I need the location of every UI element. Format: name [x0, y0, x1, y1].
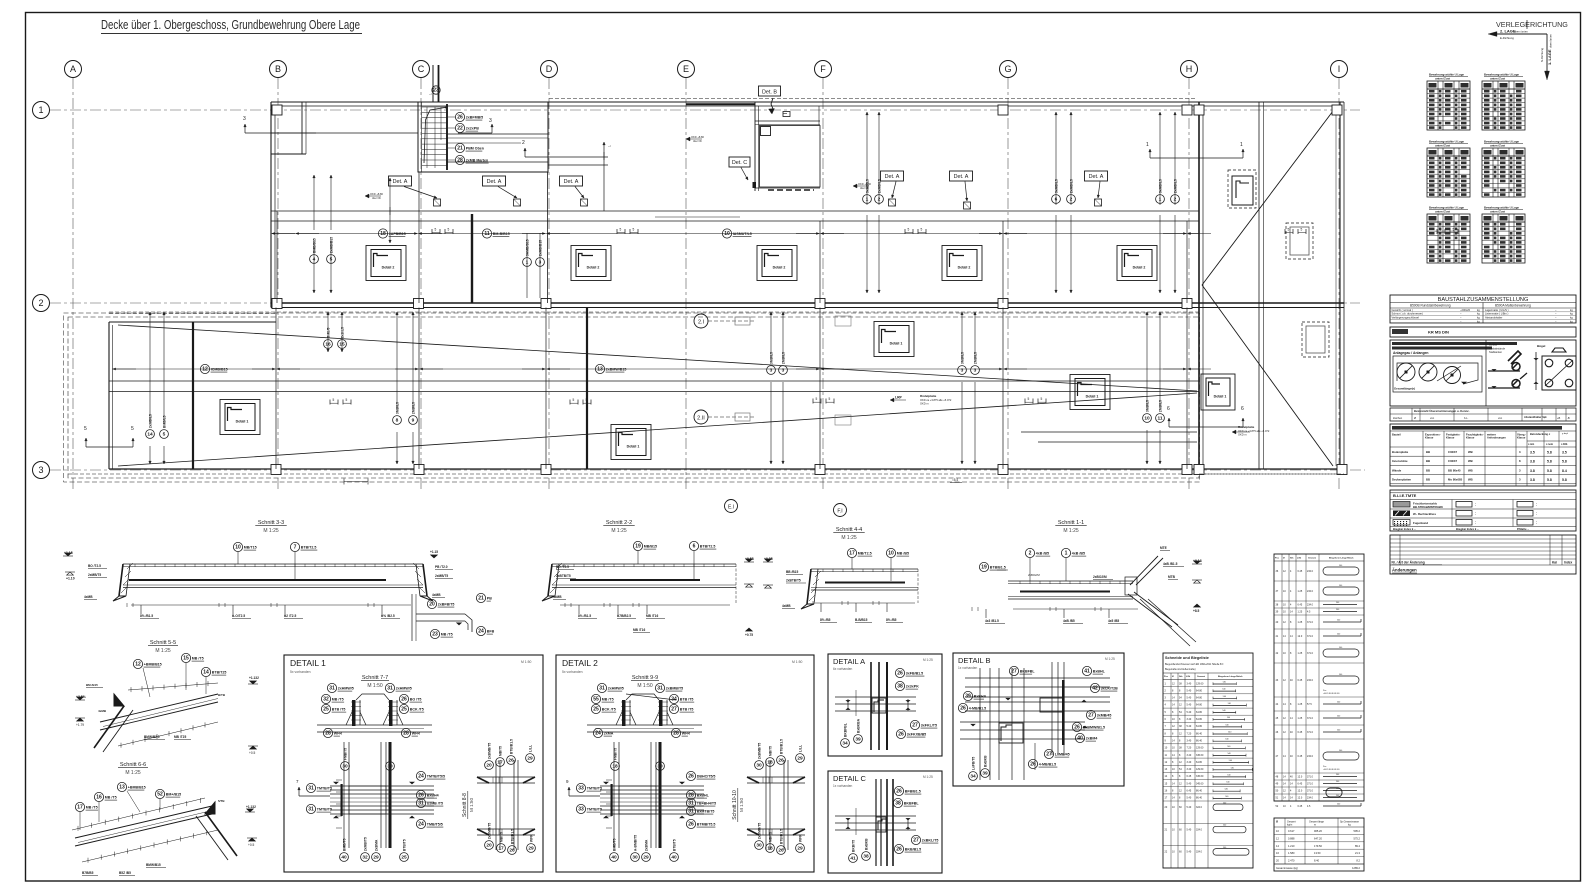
svg-text:Stabkanten: Stabkanten — [1489, 350, 1503, 354]
svg-text:BM+/B15: BM+/B15 — [166, 793, 181, 797]
svg-text:DETAIL B: DETAIL B — [958, 656, 991, 665]
lower vertical dim lines — [149, 312, 151, 422]
svg-text:+4070 8.8.8.8.8.8.8.: +4070 8.8.8.8.8.8.8. — [1323, 769, 1340, 771]
grid bubble H — [1181, 61, 1198, 78]
small dashed squares lower — [835, 316, 851, 326]
svg-text:5.8: 5.8 — [1547, 469, 1552, 473]
svg-text:M 1:25: M 1:25 — [263, 528, 279, 534]
svg-text:Klasse: Klasse — [1517, 436, 1526, 440]
svg-text:18: 18 — [767, 846, 773, 852]
svg-text:TMTB/T5: TMTB/T5 — [317, 787, 332, 791]
svg-text:Biegerollendurchmesser nach EN: Biegerollendurchmesser nach EN 1992+2011… — [1165, 663, 1224, 666]
svg-text:540: 540 — [1339, 750, 1342, 752]
svg-text:8% /B1.5: 8% /B1.5 — [578, 614, 591, 618]
svg-text:Änderungen: Änderungen — [1392, 568, 1417, 573]
svg-text:31: 31 — [688, 809, 694, 815]
svg-text:3.40: 3.40 — [1187, 682, 1192, 685]
svg-text:FMB/T5: FMB/T5 — [658, 748, 662, 760]
svg-text:BMB/5: BMB/5 — [326, 327, 330, 338]
svg-text:2xBMA: 2xBMA — [644, 839, 648, 851]
hook icons — [1488, 370, 1520, 372]
svg-text:1: 1 — [866, 197, 869, 203]
svg-text:5.8: 5.8 — [1562, 460, 1567, 464]
svg-text:540: 540 — [1337, 804, 1340, 806]
svg-text:BKBFBL: BKBFBL — [843, 723, 847, 737]
grid line 3 — [50, 469, 1365, 471]
svg-text:32: 32 — [362, 855, 368, 861]
svg-text:540: 540 — [1339, 585, 1342, 587]
svg-text:234.0: 234.0 — [1307, 755, 1314, 758]
svg-text:Pos: Pos — [1323, 690, 1326, 692]
svg-text:26: 26 — [401, 697, 407, 703]
grid line A — [72, 78, 74, 492]
svg-text:Rödelplatte: Rödelplatte — [920, 394, 937, 398]
svg-text:324.0: 324.0 — [1196, 828, 1203, 831]
svg-text:39: 39 — [855, 737, 861, 743]
svg-text:unten /Zust: unten /Zust — [1490, 76, 1505, 80]
svg-text:5: 5 — [1041, 397, 1043, 401]
svg-text:BTB/B1.5: BTB/B1.5 — [990, 566, 1006, 570]
svg-text:MB /T16: MB /T16 — [633, 628, 645, 632]
staircase shaft — [418, 102, 548, 172]
upper band dimension string — [271, 233, 1199, 235]
svg-text:371.0: 371.0 — [1307, 731, 1314, 734]
svg-text:Gesamt: Gesamt — [1197, 675, 1205, 678]
grid bubble F — [815, 61, 832, 78]
svg-text:371.0: 371.0 — [1307, 717, 1314, 720]
svg-text:19: 19 — [635, 544, 641, 550]
svg-text:540: 540 — [1339, 565, 1342, 567]
svg-text:unten /Zust: unten /Zust — [1435, 209, 1450, 213]
svg-text:Det. A: Det. A — [487, 179, 502, 185]
svg-text:+BMB/B15: +BMB/B15 — [144, 663, 162, 667]
svg-text:3.5: 3.5 — [1530, 450, 1535, 454]
svg-text:Schnitt 2-2: Schnitt 2-2 — [606, 520, 632, 526]
svg-text:Detail 2: Detail 2 — [1133, 266, 1146, 270]
svg-text:26: 26 — [509, 848, 515, 854]
svg-text:2xBFB/T5: 2xBFB/T5 — [438, 603, 455, 607]
svg-text:2xBO2/M: 2xBO2/M — [1093, 575, 1107, 579]
svg-text:40: 40 — [341, 855, 347, 861]
upper band interior wall lines — [271, 132, 418, 134]
svg-text:10: 10 — [235, 545, 241, 551]
tick groups upper — [431, 229, 433, 234]
svg-text:WB: WB — [1468, 450, 1473, 454]
svg-text:7.20: 7.20 — [1187, 732, 1192, 735]
svg-text:3AFB/B15: 3AFB/B15 — [389, 232, 406, 236]
svg-text:Ø: Ø — [1172, 676, 1174, 678]
svg-text:BxBHA: BxBHA — [974, 695, 987, 699]
svg-text:BMW/B15: BMW/B15 — [146, 863, 161, 867]
svg-text:3xMB/L5: 3xMB/L5 — [865, 179, 869, 193]
svg-text:2xBTB/T5: 2xBTB/T5 — [556, 574, 571, 578]
grid bubble 2 — [33, 295, 50, 312]
svg-text:20: 20 — [429, 602, 435, 608]
svg-text:BB /B15: BB /B15 — [786, 570, 798, 574]
svg-text:64.80: 64.80 — [1196, 725, 1203, 728]
svg-text:3xMB/45: 3xMB/45 — [1097, 714, 1112, 718]
svg-text:3.40: 3.40 — [1187, 768, 1192, 771]
svg-text:BTB/T25: BTB/T25 — [212, 671, 227, 675]
stair treads — [422, 106, 447, 108]
svg-text:Verlängerungsschlüssel: Verlängerungsschlüssel — [1392, 316, 1420, 320]
svg-text:Fugenband: Fugenband — [1413, 521, 1428, 525]
svg-text:234.0: 234.0 — [1307, 679, 1314, 682]
svg-text:MB /T5: MB /T5 — [86, 806, 98, 810]
svg-text:18: 18 — [612, 764, 618, 770]
svg-text:+0.5: +0.5 — [248, 843, 255, 847]
svg-text:BMW/B2.5: BMW/B2.5 — [144, 735, 160, 739]
svg-text:3: 3 — [243, 116, 246, 122]
svg-text:Ø: Ø — [1414, 416, 1416, 420]
svg-text:64.80: 64.80 — [1196, 711, 1203, 714]
svg-text:BTB/B1.5: BTB/B1.5 — [779, 829, 783, 844]
svg-text:4xMB: 4xMB — [553, 595, 562, 599]
svg-text:8% /B5: 8% /B5 — [820, 618, 831, 622]
svg-text:26: 26 — [896, 789, 902, 795]
svg-text:6: 6 — [1241, 406, 1244, 412]
svg-text:Betonstahl Übereinstimmungen u: Betonstahl Übereinstimmungen u. Kennz. — [1414, 408, 1470, 413]
svg-text:2xBM4: 2xBM4 — [1086, 737, 1098, 741]
OKD note 1 — [365, 194, 369, 198]
svg-text:LxMB/45: LxMB/45 — [1055, 753, 1070, 757]
svg-text:M 1:25: M 1:25 — [923, 775, 933, 779]
svg-text:2xHMW/5: 2xHMW/5 — [608, 687, 624, 691]
svg-text:BTB /T5: BTB /T5 — [680, 698, 694, 702]
svg-text:B7B/B5: B7B/B5 — [82, 871, 94, 875]
svg-text:540: 540 — [1225, 789, 1228, 791]
svg-text::: : — [1475, 521, 1476, 525]
Detail 1 boxes lower band — [220, 400, 260, 435]
DETAIL C box — [828, 771, 942, 873]
svg-text:E-Richtung: E-Richtung — [1500, 36, 1514, 40]
svg-text:~200x20: ~200x20 — [1460, 308, 1471, 312]
svg-text:+1.132: +1.132 — [249, 676, 259, 680]
svg-text:b.L.: b.L. — [1464, 416, 1469, 420]
svg-text:Bodenplatte: Bodenplatte — [1392, 450, 1409, 454]
svg-text:Gesamt-länge: Gesamt-länge — [1309, 821, 1325, 824]
column lines upper band — [276, 211, 278, 303]
svg-text:BxMTB/T5: BxMTB/T5 — [697, 810, 715, 814]
svg-text:1: 1 — [1146, 142, 1149, 148]
svg-text:1.25: 1.25 — [1298, 621, 1303, 624]
svg-text:3MB/L5: 3MB/L5 — [395, 402, 399, 414]
svg-text:Ø: Ø — [1283, 558, 1285, 560]
svg-text::: : — [1475, 503, 1476, 507]
svg-text:Det. A: Det. A — [954, 174, 969, 180]
svg-text:6: 6 — [1055, 197, 1058, 203]
svg-text:2: 2 — [1174, 197, 1177, 203]
svg-text:5.40: 5.40 — [1187, 782, 1192, 785]
svg-text:26: 26 — [898, 732, 904, 738]
svg-text:8: 8 — [396, 418, 399, 424]
svg-text:2: 2 — [878, 197, 881, 203]
svg-text:26: 26 — [778, 848, 784, 854]
svg-text:IASMUT/L5: IASMUT/L5 — [733, 232, 752, 236]
Baustahl notes + bending diagrams — [1390, 340, 1576, 406]
svg-text:26: 26 — [688, 774, 694, 780]
svg-text:5.40: 5.40 — [1187, 704, 1192, 707]
svg-text:PBM Oben: PBM Oben — [466, 147, 484, 151]
svg-text:WFR: WFR — [334, 732, 343, 736]
svg-text:DBHC/T5/5: DBHC/T5/5 — [697, 775, 716, 779]
svg-text:34: 34 — [970, 774, 976, 780]
bend detail box right — [1535, 352, 1537, 390]
right wing diagonal brace — [1202, 107, 1336, 285]
svg-text:Bügel: Bügel — [1537, 344, 1546, 348]
svg-text:3: 3 — [38, 465, 43, 475]
svg-text:+1.10: +1.10 — [66, 577, 75, 581]
svg-text:30: 30 — [657, 764, 663, 770]
svg-text:8.40: 8.40 — [1314, 859, 1320, 863]
svg-text:540: 540 — [1226, 782, 1229, 784]
svg-text:7.20: 7.20 — [1187, 747, 1192, 750]
svg-text:3xMB/L5: 3xMB/L5 — [1054, 179, 1058, 193]
svg-text:MB /T5: MB /T5 — [192, 657, 204, 661]
svg-text:N-Richtung: N-Richtung — [1540, 48, 1544, 62]
svg-text:M 1:25: M 1:25 — [1063, 528, 1079, 534]
svg-text:oben /unten: oben /unten — [1549, 34, 1553, 48]
svg-text:LRP: LRP — [895, 396, 903, 400]
top small arrow near B — [603, 142, 605, 160]
svg-text:86.40: 86.40 — [1196, 732, 1203, 735]
svg-text:+0.75: +0.75 — [745, 633, 753, 637]
svg-text:28: 28 — [403, 731, 409, 737]
svg-text:Biegeform Länge/Stück: Biegeform Länge/Stück — [1329, 557, 1354, 560]
legend block — [1390, 490, 1576, 531]
svg-text:3: 3 — [961, 368, 964, 374]
svg-text:Det. C: Det. C — [732, 160, 747, 166]
aux grid bubble 2.II — [694, 410, 708, 424]
svg-text:Schnitt 5-5: Schnitt 5-5 — [150, 640, 176, 646]
svg-text:39: 39 — [982, 771, 988, 777]
svg-text:MB/T2.5: MB/T2.5 — [858, 552, 872, 556]
svg-text:BxBKB: BxBKB — [864, 838, 868, 850]
svg-text:371.0: 371.0 — [1307, 621, 1314, 624]
svg-text:Pos: Pos — [1323, 766, 1326, 768]
Schnitt 6-6 support leg right — [205, 812, 237, 856]
svg-text:5: 5 — [330, 257, 333, 263]
wing dashed rect lower — [1302, 322, 1329, 357]
svg-text:oben /unten: oben /unten — [1514, 30, 1528, 34]
svg-text:5: 5 — [1028, 397, 1030, 401]
svg-text:26: 26 — [897, 671, 903, 677]
svg-text:234.0: 234.0 — [1307, 590, 1314, 593]
svg-text:+1.79: +1.79 — [76, 723, 84, 727]
wing dashed rect upper — [1286, 223, 1313, 259]
svg-text:12.0: 12.0 — [1298, 635, 1303, 638]
svg-text:2xBKL/T5: 2xBKL/T5 — [922, 839, 939, 843]
svg-text:DETAIL C: DETAIL C — [833, 774, 867, 783]
svg-text:540: 540 — [1339, 674, 1342, 676]
svg-text:8% /B1.5: 8% /B1.5 — [140, 614, 153, 618]
grid line C — [420, 78, 422, 492]
svg-text:TMB/T5/5: TMB/T5/5 — [427, 823, 443, 827]
Beton concrete spec table — [1390, 424, 1576, 486]
grid line B — [277, 78, 279, 492]
svg-text:26: 26 — [418, 793, 424, 799]
svg-text:12: 12 — [135, 662, 141, 668]
svg-text:5.8: 5.8 — [1547, 478, 1552, 482]
grid line H — [1188, 78, 1190, 492]
svg-text:BMB/T5: BMB/T5 — [342, 838, 346, 851]
svg-text:86.40: 86.40 — [1196, 797, 1203, 800]
svg-text:2xMB/B15: 2xMB/B15 — [329, 237, 333, 253]
svg-text:PB: PB — [487, 597, 492, 601]
svg-text:MB/B15: MB/B15 — [644, 545, 657, 549]
svg-text:I: I — [1338, 64, 1341, 74]
svg-text:OKD +8.80: OKD +8.80 — [370, 192, 383, 196]
svg-text:BTB/T2.5: BTB/T2.5 — [301, 546, 317, 550]
svg-text:1.25: 1.25 — [1298, 703, 1303, 706]
svg-text:5: 5 — [1288, 228, 1290, 232]
svg-text:C30/37: C30/37 — [1448, 459, 1457, 463]
svg-text:PB /T2.0: PB /T2.0 — [435, 565, 448, 569]
svg-text:MB /T16: MB /T16 — [646, 614, 658, 618]
svg-text:8.4: 8.4 — [1562, 469, 1567, 473]
svg-text:5: 5 — [620, 228, 622, 232]
svg-text:Klasse: Klasse — [1446, 436, 1455, 440]
svg-text:18: 18 — [380, 231, 386, 237]
svg-text:7: 7 — [294, 545, 297, 551]
svg-text:H: H — [1186, 64, 1193, 74]
svg-text:3.40: 3.40 — [1187, 754, 1192, 757]
grid bubble I — [1331, 61, 1348, 78]
svg-text:4xB /B5: 4xB /B5 — [1063, 619, 1075, 623]
svg-text:345.60: 345.60 — [1196, 775, 1204, 778]
svg-text:W– Rechteckfass: W– Rechteckfass — [1413, 512, 1436, 516]
plan upper band outline — [271, 101, 1344, 103]
svg-text:F: F — [820, 64, 826, 74]
svg-text:2xB/L5: 2xB/L5 — [340, 327, 344, 338]
Schnitt 3-3 downstand beam detail — [411, 594, 413, 641]
svg-text:MB/T5: MB/T5 — [498, 746, 502, 756]
svg-text:14: 14 — [147, 432, 153, 438]
svg-text:26: 26 — [688, 822, 694, 828]
svg-text:B500A Mattenbewehrung: B500A Mattenbewehrung — [1495, 304, 1531, 308]
svg-text:TMTB/T5: TMTB/T5 — [317, 808, 332, 812]
lower band long diagonal top — [118, 325, 1197, 391]
grid line G — [1007, 78, 1009, 492]
svg-text:25: 25 — [401, 855, 407, 861]
svg-text:3AMB/B15: 3AMB/B15 — [525, 239, 529, 256]
svg-text:30: 30 — [632, 855, 638, 861]
corridor wall line — [271, 210, 1199, 212]
svg-text:1.580: 1.580 — [1288, 851, 1295, 855]
svg-text:6.45: 6.45 — [1298, 604, 1303, 607]
svg-text:Betondeckung c: Betondeckung c — [1530, 432, 1551, 436]
svg-text:Stababstände: Stababstände — [1489, 347, 1506, 351]
svg-text:23: 23 — [432, 632, 438, 638]
weight summary table — [1274, 818, 1364, 871]
svg-text:4xMB: 4xMB — [84, 595, 93, 599]
aux bubble E.I — [725, 500, 738, 513]
Det. B marker — [759, 86, 781, 96]
svg-text:BM /B15: BM /B15 — [86, 683, 98, 687]
svg-text:B7B/B2.5: B7B/B2.5 — [617, 614, 631, 618]
Detail 2 junction plan — [600, 785, 704, 787]
svg-text:40: 40 — [1077, 736, 1083, 742]
svg-text:25: 25 — [323, 707, 329, 713]
svg-text:40: 40 — [611, 855, 617, 861]
svg-text:55: 55 — [593, 697, 599, 703]
svg-text:11: 11 — [1157, 416, 1162, 422]
svg-text:33: 33 — [578, 807, 584, 813]
svg-text:4xB /B5: 4xB /B5 — [1072, 552, 1085, 556]
svg-text:5: 5 — [333, 398, 335, 402]
svg-text:64.80: 64.80 — [1196, 689, 1203, 692]
svg-text:540: 540 — [1225, 724, 1228, 726]
svg-text:Bauteil: Bauteil — [1392, 432, 1401, 436]
svg-text:BFB: BFB — [487, 630, 495, 634]
svg-text:6: 6 — [693, 544, 696, 550]
svg-text:17: 17 — [497, 760, 503, 766]
svg-text:64.80: 64.80 — [1196, 697, 1203, 700]
svg-text:27: 27 — [913, 838, 919, 844]
svg-text:540: 540 — [1225, 796, 1228, 798]
svg-text:TB+BH4/T5: TB+BH4/T5 — [697, 802, 716, 806]
svg-text:M 1:50: M 1:50 — [792, 660, 802, 664]
svg-text:38: 38 — [897, 684, 903, 690]
svg-text:DETAIL 1: DETAIL 1 — [290, 658, 326, 668]
svg-text:234.0: 234.0 — [1307, 570, 1314, 573]
svg-text:BMB/L5: BMB/L5 — [162, 415, 166, 428]
svg-text:BB 80x45: BB 80x45 — [1448, 468, 1461, 472]
grid bubble B — [270, 61, 287, 78]
svg-text:540: 540 — [1223, 802, 1226, 804]
svg-text:BKB/T5: BKB/T5 — [851, 840, 855, 852]
svg-text:3xFKL/T5: 3xFKL/T5 — [921, 724, 937, 728]
svg-text:2.II: 2.II — [697, 416, 705, 422]
heavy wall lower 1 — [192, 322, 194, 469]
svg-text:1. LAGE: 1. LAGE — [1547, 49, 1552, 65]
svg-text:31: 31 — [688, 801, 694, 807]
svg-text:540: 540 — [1223, 825, 1226, 827]
svg-text:41: 41 — [850, 856, 856, 862]
svg-text:6.45: 6.45 — [1298, 783, 1303, 786]
grid line F — [822, 78, 824, 492]
svg-text:371.0: 371.0 — [1307, 783, 1314, 786]
svg-text:Nr. / Art der Änderung: Nr. / Art der Änderung — [1392, 561, 1425, 565]
svg-text:OKD ca +3.875 alle +5.072: OKD ca +3.875 alle +5.072 — [1238, 429, 1270, 433]
svg-text:2xBFMB/5: 2xBFMB/5 — [466, 116, 483, 120]
svg-text:Detail 2: Detail 2 — [773, 266, 786, 270]
svg-text:647.20: 647.20 — [1314, 836, 1322, 840]
svg-text:28: 28 — [457, 158, 463, 164]
svg-text:E: E — [683, 64, 689, 74]
svg-text:WFR: WFR — [798, 834, 802, 842]
svg-text:34: 34 — [842, 741, 848, 747]
svg-text:3MB/L5: 3MB/L5 — [1145, 400, 1149, 412]
svg-text:MB /B5: MB /B5 — [897, 552, 909, 556]
svg-text:24: 24 — [418, 822, 424, 828]
svg-text:MB/T5: MB/T5 — [768, 746, 772, 756]
svg-text:TMTB/T5: TMTB/T5 — [587, 787, 602, 791]
building face dashed — [549, 98, 1197, 100]
svg-text:23: 23 — [433, 88, 439, 94]
svg-text:BFB/B1.5: BFB/B1.5 — [905, 790, 921, 794]
svg-text:30: 30 — [756, 763, 762, 769]
svg-text:26: 26 — [896, 847, 902, 853]
svg-text:14: 14 — [203, 670, 209, 676]
svg-text:B: B — [275, 64, 281, 74]
svg-text:MTB: MTB — [1168, 575, 1176, 579]
right wing outline — [1198, 102, 1200, 469]
svg-text:+1.15: +1.15 — [430, 550, 438, 554]
dim pair left of D — [526, 233, 528, 298]
DETAIL 1 box — [284, 655, 543, 872]
svg-text:5: 5 — [435, 228, 437, 232]
